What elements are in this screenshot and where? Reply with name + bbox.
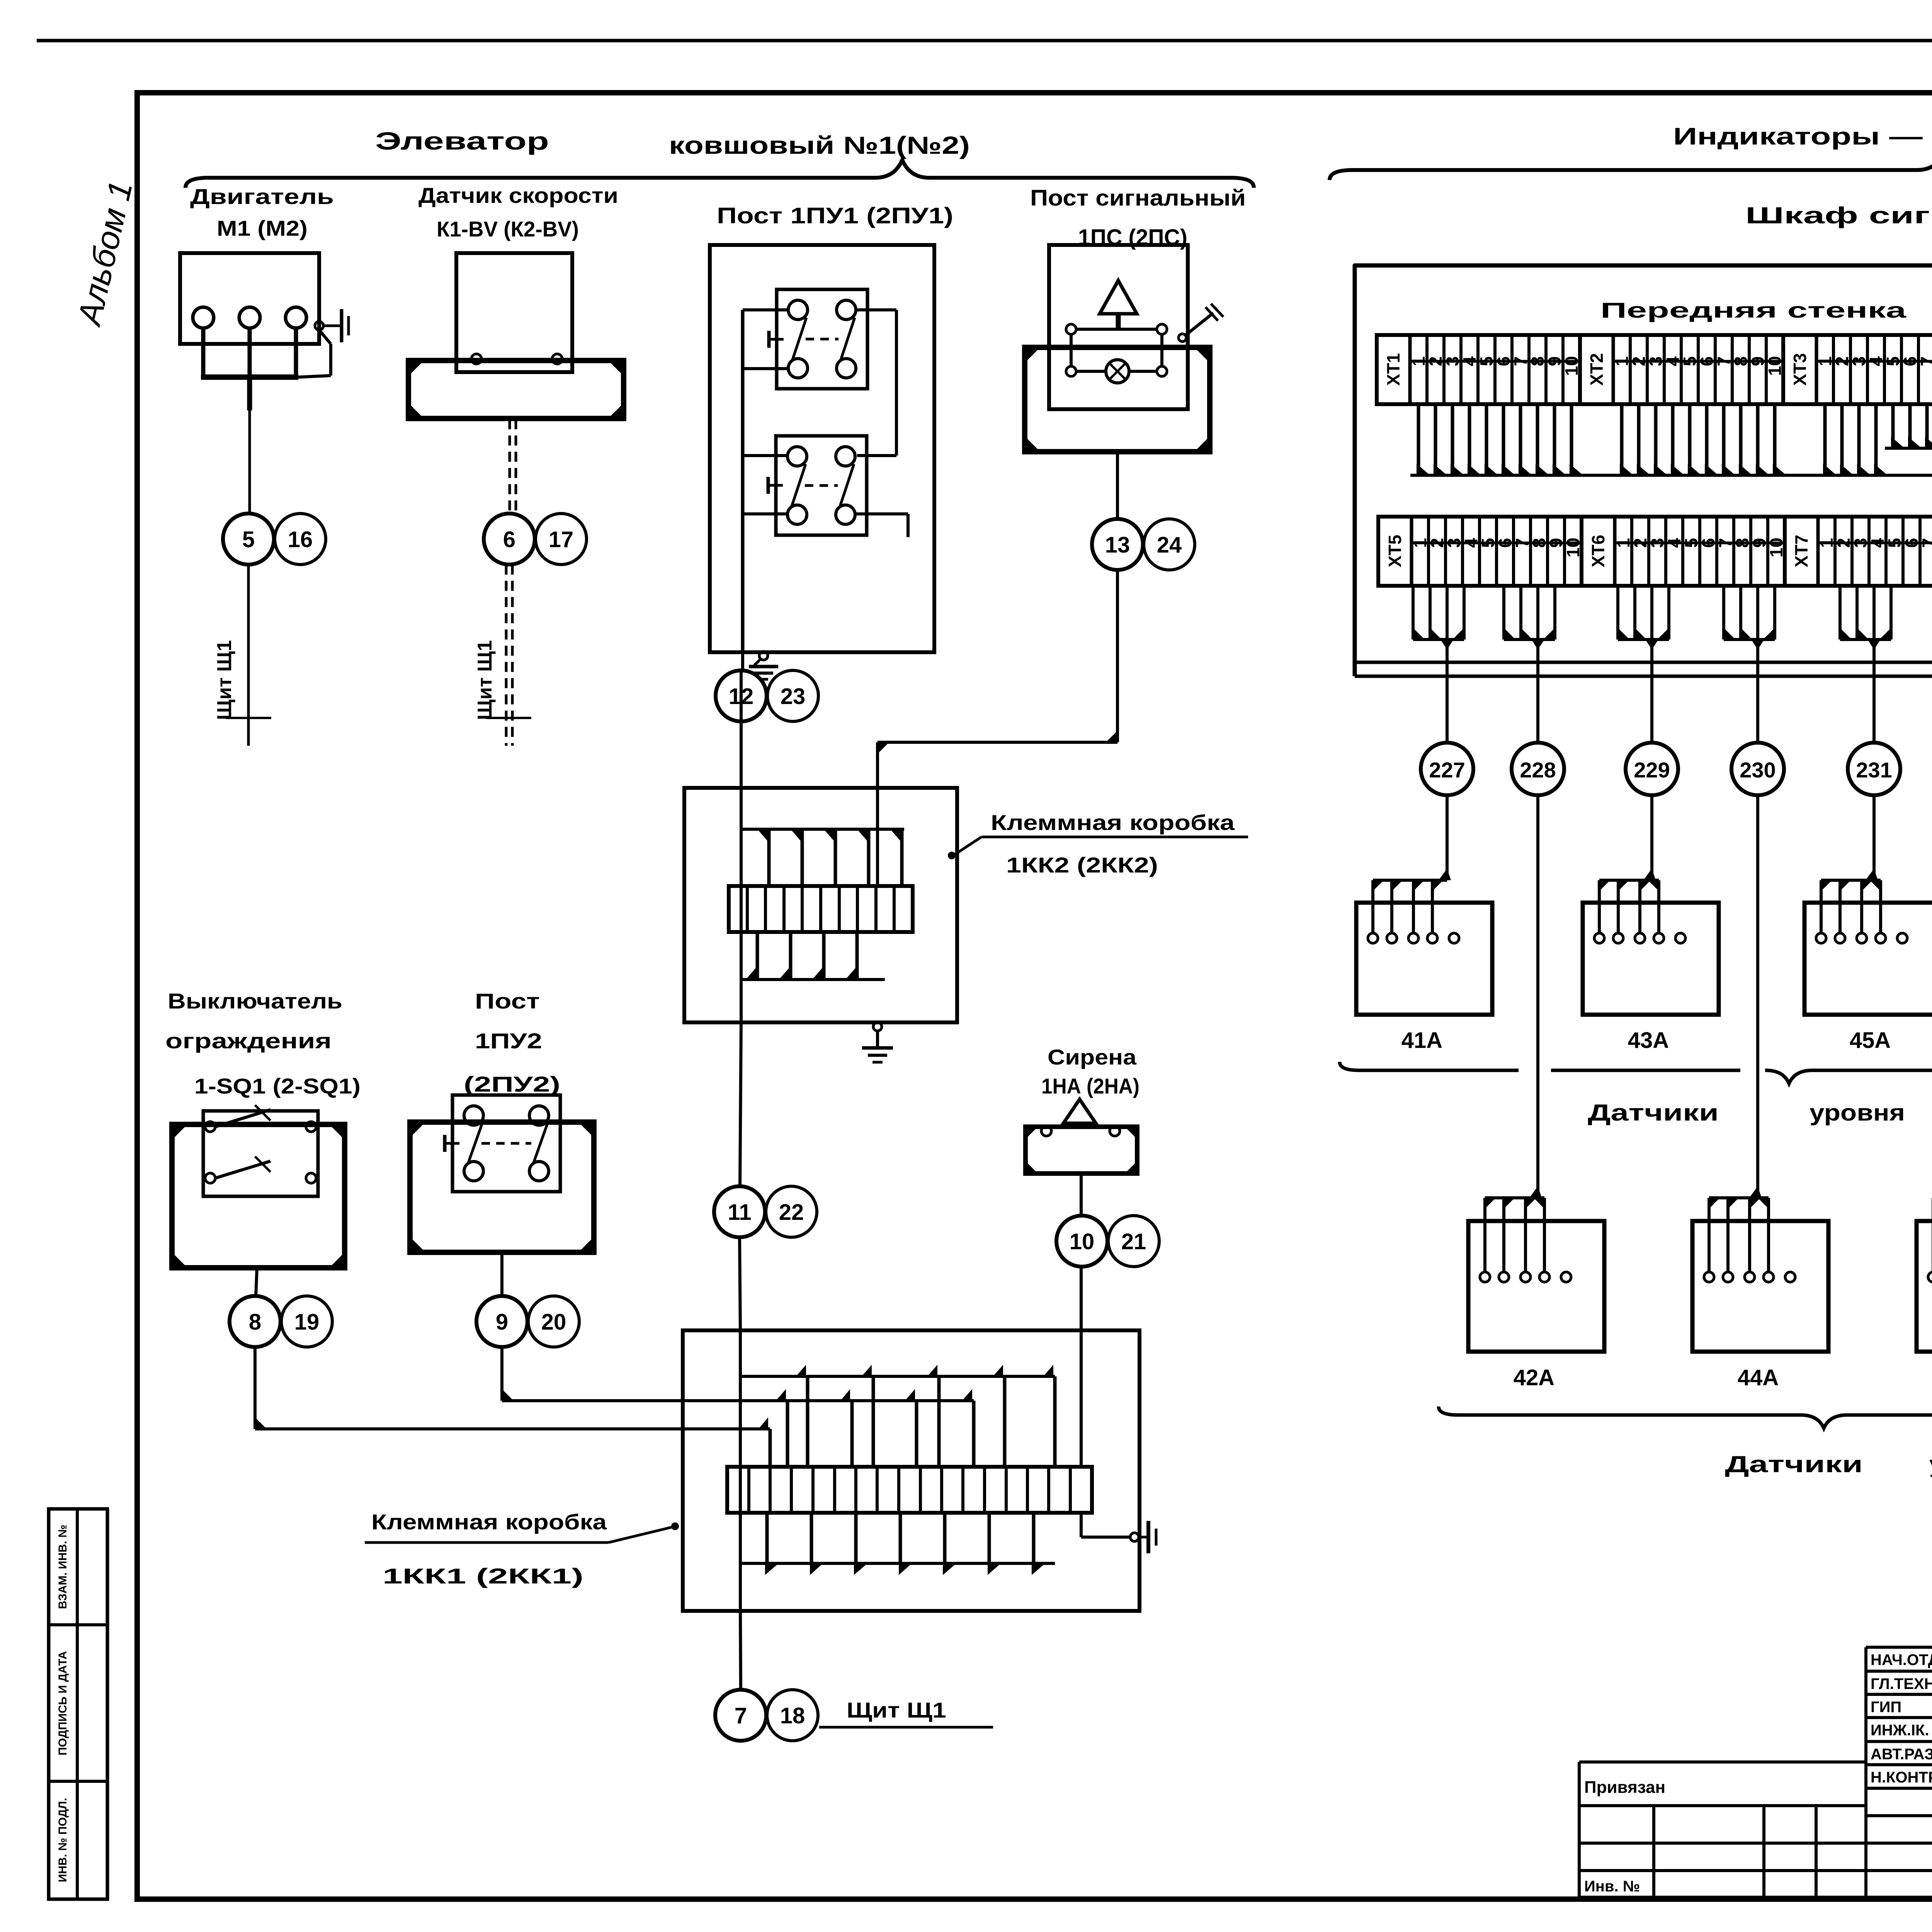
svg-text:Инв. №: Инв. №: [1584, 1878, 1640, 1895]
svg-text:5: 5: [242, 527, 255, 552]
svg-text:ограждения: ограждения: [165, 1029, 332, 1053]
svg-text:уровня: уровня: [1810, 1100, 1905, 1126]
sensor 46А box: [1917, 1221, 1932, 1352]
node circles 6 17: [484, 514, 587, 565]
wire sensor to panel: [506, 565, 512, 746]
sensor 44А fan: [1709, 1186, 1769, 1272]
svg-text:Щит Щ1: Щит Щ1: [847, 1698, 946, 1722]
privyazan table: [1579, 1762, 1866, 1897]
wire 8 to KK1: [255, 1347, 770, 1429]
node circle 229: [1626, 743, 1678, 795]
wire through KK1: [739, 1330, 742, 1611]
node circles 12 23: [716, 670, 818, 721]
post 1PU1 internal wiring: [743, 310, 908, 652]
svg-text:ХТ5: ХТ5: [1385, 535, 1405, 567]
sensor 42А box: [1468, 1221, 1604, 1352]
wire node to sensor 41А: [1446, 795, 1449, 880]
label signal post 1PS: [1030, 185, 1246, 250]
KK2 box: [684, 788, 957, 1022]
svg-text:Датчики: Датчики: [1588, 1100, 1719, 1126]
svg-text:18: 18: [780, 1703, 805, 1728]
svg-text:7: 7: [1918, 538, 1932, 548]
KK1 ground: [1081, 1513, 1156, 1553]
speed sensor box: [456, 253, 572, 372]
svg-text:ХТ6: ХТ6: [1588, 535, 1608, 567]
post 1PU1 ground tap: [749, 651, 778, 679]
sensor 45А box: [1804, 903, 1932, 1015]
wire node to sensor 44А: [1756, 795, 1759, 1198]
svg-text:229: 229: [1634, 758, 1670, 782]
label 42А: [1514, 1365, 1554, 1390]
sheet outer top border line: [37, 39, 1932, 43]
svg-text:Шкаф сигнализации: Шкаф сигнализации: [1745, 202, 1932, 228]
KK1 terminal strip: [727, 1467, 1092, 1513]
label Shield Sch1 under motor: [213, 640, 271, 720]
sensor 43А box: [1583, 903, 1719, 1015]
svg-text:19: 19: [294, 1310, 320, 1335]
left margin stamp block: [49, 1509, 107, 1899]
signature table: [1866, 1647, 1932, 1897]
label 45А: [1850, 1028, 1891, 1053]
KK1 wires mid row: [776, 1389, 974, 1467]
svg-text:7: 7: [735, 1703, 747, 1728]
label 43А: [1628, 1028, 1669, 1053]
svg-text:1ПУ2: 1ПУ2: [475, 1029, 542, 1053]
post 1PU1 element A: [769, 289, 867, 389]
siren symbol in 1PS: [1100, 281, 1137, 329]
node circle 231: [1848, 743, 1900, 795]
label KK2: [949, 810, 1248, 877]
brace elevator group: [185, 160, 1254, 188]
svg-text:НАЧ.ОТД.: НАЧ.ОТД.: [1871, 1651, 1932, 1668]
svg-text:ГЛ.ТЕХН.: ГЛ.ТЕХН.: [1871, 1675, 1932, 1692]
label sensors mid: [1588, 1100, 1905, 1126]
svg-text:ХТ2: ХТ2: [1587, 353, 1607, 386]
svg-text:Датчики: Датчики: [1725, 1451, 1863, 1477]
terminal strip XT1: [1377, 335, 1582, 404]
header Indicators: [1673, 123, 1932, 150]
wire group XT to node 230: [1724, 585, 1775, 743]
svg-text:Пост: Пост: [475, 989, 540, 1013]
terminal strip XT2: [1580, 335, 1785, 404]
svg-text:21: 21: [1121, 1229, 1146, 1254]
wire bus XT3-XT4-XT9 to node 236: [1885, 404, 1932, 603]
album label: [70, 177, 140, 330]
svg-text:ИНВ. № ПОДЛ.: ИНВ. № ПОДЛ.: [56, 1798, 69, 1883]
svg-text:(2ПУ2): (2ПУ2): [464, 1072, 560, 1096]
svg-text:10: 10: [1070, 1229, 1095, 1254]
svg-text:1КК2 (2КК2): 1КК2 (2КК2): [1006, 853, 1158, 877]
label Shield Sch1 at 7: [819, 1698, 993, 1727]
label siren: [1041, 1045, 1139, 1098]
svg-text:17: 17: [549, 527, 574, 552]
svg-text:ПОДПИСЬ И ДАТА: ПОДПИСЬ И ДАТА: [56, 1651, 69, 1755]
svg-text:Н.КОНТР.: Н.КОНТР.: [1871, 1769, 1932, 1786]
svg-text:20: 20: [541, 1310, 566, 1335]
label post 1PU1: [717, 203, 953, 228]
svg-text:Щит Щ1: Щит Щ1: [213, 640, 236, 720]
KK1 wires below strip: [740, 1513, 1055, 1575]
svg-text:230: 230: [1740, 758, 1776, 782]
sensor 41А box: [1356, 903, 1492, 1015]
label speed sensor: [418, 183, 618, 241]
post 1PU2 element: [445, 1095, 560, 1192]
siren terminal box: [1026, 1126, 1137, 1173]
svg-text:ИНЖ.IК.: ИНЖ.IК.: [1871, 1722, 1929, 1739]
svg-text:М1 (М2): М1 (М2): [217, 216, 308, 240]
svg-text:1НА (2НА): 1НА (2НА): [1041, 1074, 1139, 1098]
svg-text:16: 16: [288, 527, 313, 552]
1PS switch lever: [1179, 304, 1223, 342]
KK2 wires above strip: [740, 829, 904, 886]
sensor 45А fan: [1821, 869, 1881, 933]
wire 1PU1 to 12: [741, 652, 743, 721]
label KK1: [365, 1510, 678, 1588]
node circle 227: [1421, 743, 1473, 795]
twisted pair wire to node 6: [510, 419, 516, 513]
svg-text:Пост сигнальный: Пост сигнальный: [1030, 185, 1246, 211]
label signal cabinet: [1745, 202, 1932, 228]
terminal strip XT6: [1582, 517, 1786, 586]
speed sensor terminal box: [408, 361, 624, 418]
svg-text:231: 231: [1856, 758, 1892, 782]
svg-text:45А: 45А: [1850, 1028, 1891, 1053]
sensor 42А fan: [1485, 1186, 1544, 1272]
terminal strip XT3: [1783, 335, 1932, 404]
fence switch terminal box: [172, 1124, 345, 1268]
svg-text:9: 9: [496, 1310, 508, 1335]
brace sensors bottom: [1439, 1406, 1932, 1428]
wire siren down: [1080, 1173, 1083, 1216]
svg-text:К1-BV (К2-BV): К1-BV (К2-BV): [437, 217, 579, 241]
svg-text:ковшовый №1(№2): ковшовый №1(№2): [669, 131, 970, 159]
sensor 44А box: [1692, 1221, 1828, 1352]
label 41А: [1401, 1028, 1442, 1053]
svg-text:Индикаторы — сигнализаторы ур: Индикаторы — сигнализаторы уровня: [1673, 123, 1932, 150]
svg-text:228: 228: [1520, 758, 1556, 782]
node circles 9 20: [476, 1296, 579, 1347]
wire node to sensor 42А: [1536, 795, 1539, 1198]
wire 11 to KK1: [740, 1237, 740, 1330]
svg-text:Двигатель: Двигатель: [190, 184, 334, 209]
node circles 13 24: [1092, 519, 1195, 570]
siren symbol: [1063, 1099, 1096, 1128]
svg-text:22: 22: [779, 1200, 804, 1225]
wire node to sensor 43А: [1650, 795, 1653, 880]
svg-text:ХТ3: ХТ3: [1790, 353, 1810, 386]
wire group XT to node 228: [1504, 585, 1555, 743]
svg-text:уровня: уровня: [1929, 1451, 1932, 1477]
wire through KK2: [740, 788, 743, 1022]
svg-text:ХТ1: ХТ1: [1383, 353, 1403, 386]
svg-text:44А: 44А: [1738, 1365, 1779, 1390]
wire 10 to KK1: [1080, 1267, 1083, 1467]
header Elevator: [375, 127, 970, 159]
svg-text:43А: 43А: [1628, 1028, 1669, 1053]
svg-text:8: 8: [249, 1310, 261, 1335]
svg-text:42А: 42А: [1514, 1365, 1554, 1390]
svg-text:ХТ7: ХТ7: [1791, 535, 1811, 567]
node circles 8 19: [230, 1296, 332, 1347]
KK2 terminal strip: [729, 886, 913, 932]
signal post 1PS box: [1049, 245, 1188, 409]
wire bus XT1-XT3 to node 235: [1410, 404, 1932, 603]
svg-text:Сирена: Сирена: [1048, 1045, 1137, 1069]
KK1 wires low row: [759, 1417, 770, 1467]
brace indicators group: [1330, 153, 1932, 180]
svg-text:ГИП: ГИП: [1871, 1699, 1901, 1716]
wire group XT to node 231: [1840, 585, 1891, 743]
wire SQ1 down: [256, 1268, 257, 1296]
svg-text:6: 6: [503, 527, 515, 552]
wire motor to panel: [247, 565, 250, 746]
node circles 11 22: [714, 1186, 817, 1237]
wire 9 to KK1: [502, 1347, 974, 1401]
svg-text:11: 11: [728, 1200, 751, 1225]
svg-text:ВЗАМ. ИНВ. №: ВЗАМ. ИНВ. №: [56, 1525, 69, 1609]
terminal strip XT7: [1785, 517, 1932, 586]
svg-text:Выключатель: Выключатель: [168, 989, 342, 1013]
motor M1 box: [180, 253, 323, 344]
svg-text:АВТ.РАЗД.: АВТ.РАЗД.: [1871, 1746, 1932, 1763]
node circles 5 16: [223, 514, 326, 565]
label front wall: [1600, 298, 1906, 322]
KK2 ground: [862, 1022, 893, 1062]
wire KK2 to 11: [740, 1022, 741, 1186]
svg-text:23: 23: [781, 684, 806, 709]
wire group XT to node 229: [1618, 585, 1669, 743]
svg-text:Привязан: Привязан: [1584, 1778, 1665, 1797]
fence switch element: [203, 1105, 318, 1196]
1PS lamp circuit: [1066, 324, 1167, 383]
wire 1PS down: [1116, 452, 1119, 519]
wire node to sensor 45А: [1872, 795, 1876, 880]
label post 1PU2: [464, 989, 560, 1096]
label Shield Sch1 under sensor: [474, 640, 531, 720]
sensor 41А fan: [1373, 869, 1451, 933]
wire 1PU2 down: [500, 1252, 503, 1296]
sensor 43А fan: [1599, 869, 1659, 933]
wire 12 to KK2: [740, 721, 743, 788]
wire group XT to node 227: [1413, 585, 1464, 743]
svg-text:Клеммная коробка: Клеммная коробка: [371, 1510, 607, 1534]
svg-text:Элеватор: Элеватор: [375, 127, 549, 155]
label sensors bottom: [1725, 1451, 1932, 1477]
svg-text:13: 13: [1105, 532, 1130, 558]
KK1 box: [683, 1330, 1139, 1611]
motor ground symbol: [323, 309, 349, 342]
node circle 228: [1512, 743, 1564, 795]
svg-text:Пост 1ПУ1 (2ПУ1): Пост 1ПУ1 (2ПУ1): [717, 203, 953, 228]
svg-text:1КК1 (2КК1): 1КК1 (2КК1): [383, 1564, 583, 1588]
wire 13 to KK2: [878, 570, 1117, 886]
1PS terminal box: [1025, 347, 1210, 452]
svg-text:Датчик скорости: Датчик скорости: [418, 183, 618, 207]
label fence switch: [165, 989, 361, 1098]
label 44А: [1738, 1365, 1779, 1390]
node circles 7 18: [715, 1690, 818, 1741]
svg-text:Передняя стенка: Передняя стенка: [1600, 298, 1906, 322]
post 1PU1 element B: [768, 436, 867, 535]
KK1 wires top row: [740, 1365, 1055, 1467]
motor wires to node 5: [201, 328, 331, 513]
post 1PU2 terminal box: [410, 1122, 594, 1252]
node circle 230: [1731, 743, 1784, 795]
svg-text:1-SQ1 (2-SQ1): 1-SQ1 (2-SQ1): [194, 1074, 361, 1098]
label motor M1(M2): [190, 184, 334, 240]
svg-text:Щит Щ1: Щит Щ1: [474, 640, 496, 720]
post 1PU1 outer box: [710, 245, 934, 652]
svg-text:7: 7: [1917, 356, 1932, 366]
brace sensors mid: [1340, 1062, 1932, 1083]
svg-text:24: 24: [1157, 532, 1182, 558]
svg-text:41А: 41А: [1401, 1028, 1442, 1053]
cabinet front box: [1355, 265, 1932, 676]
KK2 wires below strip: [740, 932, 885, 980]
svg-text:227: 227: [1429, 758, 1465, 782]
terminal strip XT5: [1378, 517, 1583, 586]
svg-text:Клеммная коробка: Клеммная коробка: [991, 810, 1235, 835]
node circles 10 21: [1056, 1216, 1159, 1267]
wire KK1 to 7: [740, 1611, 741, 1690]
